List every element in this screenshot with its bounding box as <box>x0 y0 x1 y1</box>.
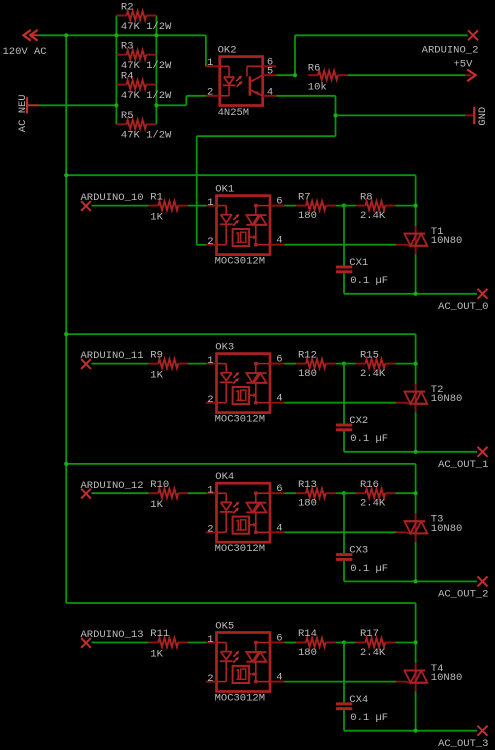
svg-text:OK4: OK4 <box>215 471 234 483</box>
svg-text:47K 1/2W: 47K 1/2W <box>121 130 172 142</box>
svg-text:2.4K: 2.4K <box>360 210 386 222</box>
svg-text:ARDUINO_2: ARDUINO_2 <box>422 44 479 56</box>
svg-text:2: 2 <box>207 236 213 248</box>
svg-text:2: 2 <box>207 673 213 685</box>
svg-text:R6: R6 <box>308 62 321 74</box>
svg-text:1K: 1K <box>150 370 163 382</box>
svg-text:2: 2 <box>207 524 213 536</box>
svg-text:180: 180 <box>298 210 317 222</box>
svg-text:1: 1 <box>207 485 213 497</box>
svg-text:0.1 µF: 0.1 µF <box>350 563 388 575</box>
svg-text:R11: R11 <box>150 628 169 640</box>
svg-text:0.1 µF: 0.1 µF <box>350 275 388 287</box>
svg-text:AC_OUT_2: AC_OUT_2 <box>438 589 488 601</box>
svg-text:10N80: 10N80 <box>431 393 463 405</box>
svg-text:MOC3012M: MOC3012M <box>215 693 265 705</box>
svg-text:4: 4 <box>276 393 282 405</box>
svg-text:0.1 µF: 0.1 µF <box>350 712 388 724</box>
svg-text:R14: R14 <box>298 628 317 640</box>
svg-text:2: 2 <box>207 87 213 99</box>
svg-text:5: 5 <box>267 66 273 78</box>
svg-text:10N80: 10N80 <box>431 672 463 684</box>
svg-text:47K 1/2W: 47K 1/2W <box>121 90 172 102</box>
svg-text:120V AC: 120V AC <box>3 46 47 58</box>
svg-text:AC_OUT_0: AC_OUT_0 <box>438 301 488 313</box>
svg-text:R5: R5 <box>121 110 134 122</box>
svg-text:1: 1 <box>207 57 213 69</box>
svg-text:6: 6 <box>276 196 282 208</box>
svg-text:10k: 10k <box>308 81 327 93</box>
svg-text:R13: R13 <box>298 479 317 491</box>
svg-text:R9: R9 <box>150 349 163 361</box>
svg-text:4: 4 <box>276 522 282 534</box>
svg-text:4: 4 <box>276 672 282 684</box>
svg-text:OK5: OK5 <box>215 621 234 633</box>
svg-text:10N80: 10N80 <box>431 523 463 535</box>
svg-text:180: 180 <box>298 368 317 380</box>
svg-text:OK3: OK3 <box>215 342 234 354</box>
svg-text:MOC3012M: MOC3012M <box>215 414 265 426</box>
svg-text:2.4K: 2.4K <box>360 647 386 659</box>
svg-text:6: 6 <box>276 483 282 495</box>
svg-text:OK2: OK2 <box>218 44 237 56</box>
svg-text:2.4K: 2.4K <box>360 368 386 380</box>
svg-text:R15: R15 <box>360 349 379 361</box>
svg-text:CX1: CX1 <box>349 257 368 269</box>
svg-text:6: 6 <box>276 633 282 645</box>
svg-text:+5V: +5V <box>453 58 473 70</box>
svg-text:R8: R8 <box>360 191 373 203</box>
svg-text:MOC3012M: MOC3012M <box>215 256 265 268</box>
svg-text:4: 4 <box>267 87 273 99</box>
svg-text:6: 6 <box>276 354 282 366</box>
svg-text:CX3: CX3 <box>349 545 368 557</box>
svg-text:R16: R16 <box>360 479 379 491</box>
svg-text:180: 180 <box>298 647 317 659</box>
svg-text:R10: R10 <box>150 479 169 491</box>
svg-text:1K: 1K <box>150 649 163 661</box>
svg-text:R7: R7 <box>298 191 311 203</box>
svg-text:4N25M: 4N25M <box>218 107 250 119</box>
svg-text:2.4K: 2.4K <box>360 498 386 510</box>
svg-text:10N80: 10N80 <box>431 235 463 247</box>
svg-text:0.1 µF: 0.1 µF <box>350 433 388 445</box>
svg-text:1: 1 <box>207 197 213 209</box>
svg-text:AC_OUT_1: AC_OUT_1 <box>438 459 488 471</box>
svg-text:R17: R17 <box>360 628 379 640</box>
svg-text:1: 1 <box>207 634 213 646</box>
svg-text:R4: R4 <box>121 70 134 82</box>
svg-text:1K: 1K <box>150 212 163 224</box>
svg-text:GND: GND <box>477 107 489 126</box>
svg-text:R1: R1 <box>150 191 163 203</box>
svg-text:R12: R12 <box>298 349 317 361</box>
svg-text:1K: 1K <box>150 499 163 511</box>
svg-text:R3: R3 <box>121 41 134 53</box>
svg-text:AC_OUT_3: AC_OUT_3 <box>438 738 488 750</box>
svg-text:CX4: CX4 <box>349 694 368 706</box>
svg-text:CX2: CX2 <box>349 415 368 427</box>
svg-text:MOC3012M: MOC3012M <box>215 543 265 555</box>
svg-text:OK1: OK1 <box>215 184 234 196</box>
svg-text:47K 1/2W: 47K 1/2W <box>121 21 172 33</box>
svg-text:AC NEU: AC NEU <box>17 94 29 132</box>
svg-text:2: 2 <box>207 394 213 406</box>
svg-text:1: 1 <box>207 355 213 367</box>
svg-text:180: 180 <box>298 498 317 510</box>
svg-text:R2: R2 <box>121 1 134 13</box>
svg-text:4: 4 <box>276 235 282 247</box>
